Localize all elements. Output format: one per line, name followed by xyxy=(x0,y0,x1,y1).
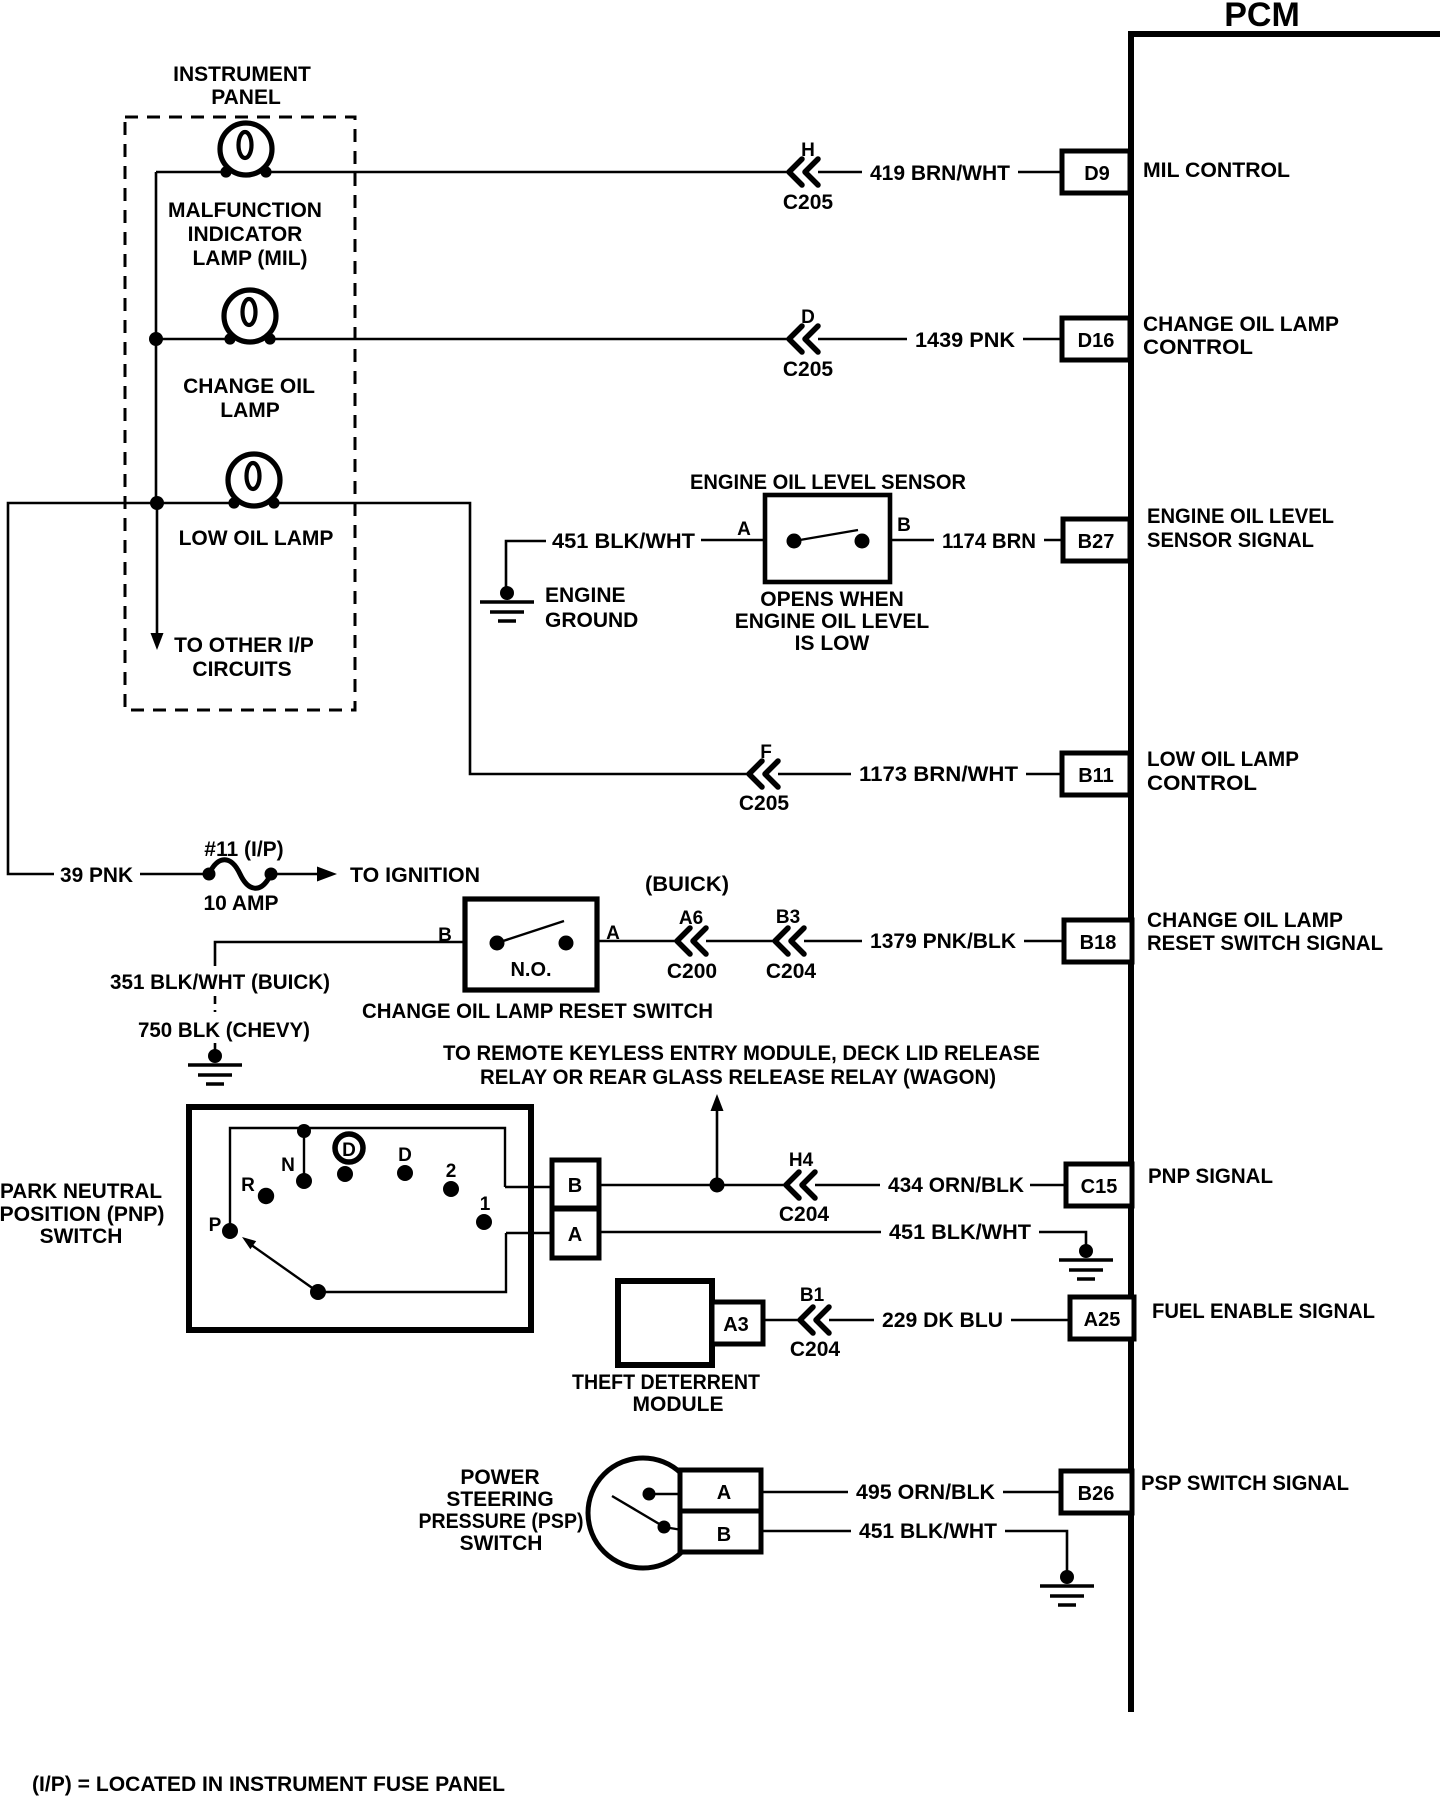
wire 419 to label xyxy=(818,171,862,174)
svg-text:39 PNK: 39 PNK xyxy=(60,864,133,887)
svg-text:TO REMOTE KEYLESS ENTRY MODULE: TO REMOTE KEYLESS ENTRY MODULE, DECK LID… xyxy=(443,1042,1040,1065)
svg-text:B3: B3 xyxy=(776,907,800,928)
node contact P xyxy=(222,1223,238,1239)
svg-text:CHANGE OIL LAMP RESET SWITCH: CHANGE OIL LAMP RESET SWITCH xyxy=(362,1000,713,1023)
svg-text:C200: C200 xyxy=(667,960,717,983)
lamp CHANGE OIL xyxy=(224,290,276,345)
node junction dot row3 xyxy=(150,496,164,510)
PSP pin B box xyxy=(680,1511,761,1552)
svg-text:C15: C15 xyxy=(1081,1176,1118,1198)
theft deterrent module U2 xyxy=(618,1281,712,1365)
wire 1439 to label xyxy=(818,338,907,341)
wire 229 to label xyxy=(829,1319,874,1322)
wire label to A25 xyxy=(1011,1319,1070,1322)
wire reset switch pin A to C200 xyxy=(597,940,677,943)
wire 451 to ground (PSP) xyxy=(1005,1531,1067,1576)
terminal B27 xyxy=(1063,519,1130,561)
svg-text:THEFT DETERRENT: THEFT DETERRENT xyxy=(572,1371,760,1394)
wire change oil lamp to bus xyxy=(156,338,230,341)
svg-text:ENGINE: ENGINE xyxy=(545,584,626,607)
wire 451 label to sensor pin A xyxy=(701,539,765,542)
PNP pin B box xyxy=(552,1160,599,1208)
wire 434 to label xyxy=(815,1184,880,1187)
engine ground symbol xyxy=(480,586,534,621)
svg-text:B: B xyxy=(717,1524,731,1546)
svg-text:PRESSURE (PSP): PRESSURE (PSP) xyxy=(419,1510,584,1533)
svg-text:FUEL ENABLE SIGNAL: FUEL ENABLE SIGNAL xyxy=(1152,1300,1375,1323)
svg-text:451 BLK/WHT: 451 BLK/WHT xyxy=(889,1221,1031,1244)
chassis ground symbol (reset switch) xyxy=(188,1049,242,1084)
svg-text:C204: C204 xyxy=(790,1338,841,1361)
wire dashed segment between wire names xyxy=(214,996,217,1012)
connector C204 pin H4 xyxy=(779,1150,830,1226)
wire branch up arrow to keyless entry xyxy=(711,1094,724,1185)
connector C200 pin A6 xyxy=(667,908,717,983)
svg-text:SWITCH: SWITCH xyxy=(460,1532,543,1555)
svg-text:434 ORN/BLK: 434 ORN/BLK xyxy=(888,1174,1024,1197)
svg-text:POWER: POWER xyxy=(460,1466,539,1489)
PSP switch contacts xyxy=(612,1488,682,1534)
svg-text:351 BLK/WHT (BUICK): 351 BLK/WHT (BUICK) xyxy=(110,971,330,994)
svg-text:SENSOR SIGNAL: SENSOR SIGNAL xyxy=(1147,529,1314,552)
svg-text:C205: C205 xyxy=(739,792,790,815)
wire PSP A to 495 label xyxy=(761,1491,848,1494)
svg-text:ENGINE OIL LEVEL: ENGINE OIL LEVEL xyxy=(1147,505,1334,528)
svg-text:PARK NEUTRAL: PARK NEUTRAL xyxy=(0,1180,162,1203)
svg-text:PNP SIGNAL: PNP SIGNAL xyxy=(1148,1165,1273,1188)
wire 1173 to label xyxy=(778,773,851,776)
svg-text:10 AMP: 10 AMP xyxy=(203,892,278,915)
svg-text:C204: C204 xyxy=(766,960,817,983)
svg-text:A: A xyxy=(568,1224,582,1246)
svg-text:B: B xyxy=(897,515,911,536)
svg-text:D9: D9 xyxy=(1084,163,1110,185)
change oil lamp reset switch S2 xyxy=(465,899,597,990)
wire label to B11 xyxy=(1026,773,1062,776)
terminal B11 xyxy=(1062,753,1130,795)
node contact 1 xyxy=(476,1214,492,1230)
wire pin A to 451 label xyxy=(599,1231,881,1234)
node contact R xyxy=(258,1188,274,1204)
svg-text:1379 PNK/BLK: 1379 PNK/BLK xyxy=(870,930,1016,953)
svg-text:A25: A25 xyxy=(1084,1309,1121,1331)
wire pin B to C204 xyxy=(599,1184,786,1187)
node contact N xyxy=(296,1173,312,1189)
PNP rotor arm arrow xyxy=(242,1237,326,1300)
svg-text:RELAY OR REAR GLASS RELEASE RE: RELAY OR REAR GLASS RELEASE RELAY (WAGON… xyxy=(480,1066,996,1089)
wire A3 to C204 xyxy=(763,1319,800,1322)
wire label to C15 xyxy=(1030,1184,1066,1187)
svg-text:F: F xyxy=(760,742,772,763)
svg-text:B1: B1 xyxy=(800,1285,825,1306)
svg-text:MALFUNCTION: MALFUNCTION xyxy=(168,199,322,222)
svg-text:451 BLK/WHT: 451 BLK/WHT xyxy=(552,530,695,553)
wire MIL lamp to bus xyxy=(156,171,226,174)
svg-text:LAMP: LAMP xyxy=(220,399,280,422)
wire 451 to ground xyxy=(1039,1232,1086,1250)
connector C205 pin H xyxy=(783,140,834,214)
svg-text:CHANGE OIL LAMP: CHANGE OIL LAMP xyxy=(1147,909,1343,932)
svg-text:B: B xyxy=(568,1175,582,1197)
svg-text:GROUND: GROUND xyxy=(545,609,638,632)
node contact 2 xyxy=(443,1181,459,1197)
svg-text:(BUICK): (BUICK) xyxy=(645,873,729,896)
svg-text:#11 (I/P): #11 (I/P) xyxy=(204,838,283,861)
svg-text:1: 1 xyxy=(480,1194,491,1215)
wire label to B27 xyxy=(1044,539,1063,542)
svg-text:CONTROL: CONTROL xyxy=(1143,336,1253,359)
wire ground riser to 451 label xyxy=(506,541,546,592)
terminal D9 xyxy=(1062,151,1130,193)
svg-text:PANEL: PANEL xyxy=(211,86,281,109)
PNP inner contact plate xyxy=(230,1128,505,1231)
fuse #11 10 AMP xyxy=(203,838,284,915)
svg-text:MODULE: MODULE xyxy=(633,1393,724,1416)
svg-text:OPENS WHEN: OPENS WHEN xyxy=(760,588,904,611)
svg-text:D16: D16 xyxy=(1078,330,1115,352)
node top contact xyxy=(297,1124,311,1138)
wire change oil lamp to connector C205 xyxy=(270,338,789,341)
svg-text:A: A xyxy=(737,519,751,540)
svg-text:P: P xyxy=(209,1215,222,1236)
wire label to D16 xyxy=(1023,338,1062,341)
wire label to B26 xyxy=(1003,1491,1061,1494)
svg-text:A: A xyxy=(717,1482,731,1504)
svg-text:SWITCH: SWITCH xyxy=(40,1225,123,1248)
terminal C15 xyxy=(1066,1164,1132,1206)
theft deterrent module pin A3 box xyxy=(712,1302,763,1344)
terminal B26 xyxy=(1061,1471,1132,1513)
lamp LOW OIL xyxy=(228,454,280,509)
wire label to D9 xyxy=(1018,171,1062,174)
svg-text:B26: B26 xyxy=(1078,1483,1115,1505)
lamp MIL xyxy=(220,123,272,178)
svg-text:TO OTHER I/P: TO OTHER I/P xyxy=(174,634,314,657)
wire MIL lamp to connector C205 xyxy=(266,171,789,174)
svg-text:B11: B11 xyxy=(1078,765,1114,787)
svg-text:C205: C205 xyxy=(783,358,834,381)
terminal B18 xyxy=(1064,920,1132,962)
wire label to B18 xyxy=(1024,940,1064,943)
svg-text:229 DK BLU: 229 DK BLU xyxy=(882,1309,1003,1332)
wire PSP B to 451 label xyxy=(761,1530,851,1533)
svg-text:1173 BRN/WHT: 1173 BRN/WHT xyxy=(859,763,1018,786)
wire PNP pin A through case xyxy=(506,1232,552,1235)
wire low oil lamp left rail xyxy=(8,503,157,874)
connector C204 pin B3 xyxy=(766,907,817,983)
svg-text:STEERING: STEERING xyxy=(446,1488,553,1511)
svg-text:INSTRUMENT: INSTRUMENT xyxy=(173,63,311,86)
wire instrument panel vertical bus xyxy=(155,172,158,503)
svg-text:H: H xyxy=(801,140,815,161)
svg-text:LOW OIL LAMP: LOW OIL LAMP xyxy=(1147,748,1299,771)
svg-text:D: D xyxy=(801,307,815,328)
node junction dot row2 xyxy=(149,332,163,346)
svg-text:A3: A3 xyxy=(723,1314,749,1336)
wire PNP lower path to pin A xyxy=(318,1233,506,1292)
svg-text:CHANGE OIL LAMP: CHANGE OIL LAMP xyxy=(1143,313,1339,336)
svg-text:419 BRN/WHT: 419 BRN/WHT xyxy=(870,162,1010,185)
engine oil level sensor switch S1 xyxy=(765,495,890,582)
svg-text:C204: C204 xyxy=(779,1203,830,1226)
wire PNP pin B through case xyxy=(505,1186,552,1189)
connector C204 pin B1 xyxy=(790,1285,841,1361)
svg-text:B: B xyxy=(438,925,452,946)
svg-text:1439 PNK: 1439 PNK xyxy=(915,329,1015,352)
svg-text:IS LOW: IS LOW xyxy=(795,632,870,655)
svg-text:PCM: PCM xyxy=(1224,0,1300,34)
svg-text:RESET SWITCH SIGNAL: RESET SWITCH SIGNAL xyxy=(1147,932,1383,955)
wire low oil lamp right leg xyxy=(274,503,749,774)
wire to chassis ground xyxy=(214,1043,217,1055)
wire fuse to ignition (arrow) xyxy=(271,867,337,882)
wire 39 PNK to fuse xyxy=(140,873,209,876)
wire to other I/P circuits (down arrow) xyxy=(151,503,164,650)
chassis ground symbol (PNP) xyxy=(1059,1244,1113,1279)
park neutral position switch S3 outer box xyxy=(189,1107,531,1330)
node junction to keyless branch xyxy=(710,1178,725,1193)
wire reset switch pin B to ground branch xyxy=(215,942,465,966)
svg-text:LOW OIL LAMP: LOW OIL LAMP xyxy=(179,527,334,550)
svg-text:LAMP (MIL): LAMP (MIL) xyxy=(192,247,307,270)
svg-text:R: R xyxy=(241,1175,255,1196)
wire 1379 to label xyxy=(804,940,862,943)
svg-text:750 BLK (CHEVY): 750 BLK (CHEVY) xyxy=(138,1019,310,1042)
PCM module boundary line xyxy=(1128,31,1440,1712)
svg-text:H4: H4 xyxy=(789,1150,814,1171)
svg-text:ENGINE OIL LEVEL SENSOR: ENGINE OIL LEVEL SENSOR xyxy=(690,471,966,494)
instrument panel dashed box xyxy=(125,117,355,710)
svg-text:451 BLK/WHT: 451 BLK/WHT xyxy=(859,1520,997,1543)
svg-text:B18: B18 xyxy=(1080,932,1117,954)
PNP pin A box xyxy=(552,1209,599,1258)
connector C205 pin D xyxy=(783,307,834,381)
svg-text:N.O.: N.O. xyxy=(510,959,551,981)
svg-text:CHANGE OIL: CHANGE OIL xyxy=(183,375,315,398)
svg-text:INDICATOR: INDICATOR xyxy=(188,223,303,246)
svg-text:1174 BRN: 1174 BRN xyxy=(942,530,1036,553)
svg-text:D: D xyxy=(398,1145,412,1166)
svg-text:TO IGNITION: TO IGNITION xyxy=(350,864,480,887)
svg-text:D: D xyxy=(342,1140,356,1161)
svg-text:ENGINE OIL LEVEL: ENGINE OIL LEVEL xyxy=(735,610,930,633)
svg-text:PSP SWITCH SIGNAL: PSP SWITCH SIGNAL xyxy=(1141,1472,1349,1495)
wire sensor pin B to 1174 label xyxy=(890,539,934,542)
svg-text:495 ORN/BLK: 495 ORN/BLK xyxy=(856,1481,995,1504)
svg-text:B27: B27 xyxy=(1078,531,1115,553)
svg-text:(I/P) = LOCATED IN INSTRUMENT: (I/P) = LOCATED IN INSTRUMENT FUSE PANEL xyxy=(32,1773,505,1796)
svg-text:A6: A6 xyxy=(679,908,703,929)
svg-text:2: 2 xyxy=(446,1161,457,1182)
terminal A25 xyxy=(1070,1297,1134,1339)
svg-text:CONTROL: CONTROL xyxy=(1147,772,1257,795)
PSP pin A box xyxy=(680,1470,761,1511)
connector C205 pin F xyxy=(739,742,790,815)
chassis ground symbol (PSP) xyxy=(1040,1570,1094,1605)
svg-text:POSITION (PNP): POSITION (PNP) xyxy=(0,1203,165,1226)
svg-text:MIL CONTROL: MIL CONTROL xyxy=(1143,159,1290,182)
svg-text:CIRCUITS: CIRCUITS xyxy=(192,658,291,681)
wire low oil lamp to bus xyxy=(157,502,234,505)
node contact D xyxy=(397,1165,413,1181)
svg-text:N: N xyxy=(281,1155,295,1176)
wire top contact to N contact xyxy=(303,1131,305,1180)
wire C200 to C204 xyxy=(706,940,775,943)
terminal D16 xyxy=(1062,318,1130,360)
svg-text:C205: C205 xyxy=(783,191,834,214)
contact D circled (drive) xyxy=(335,1134,363,1182)
power steering pressure switch S4 body xyxy=(588,1458,698,1568)
